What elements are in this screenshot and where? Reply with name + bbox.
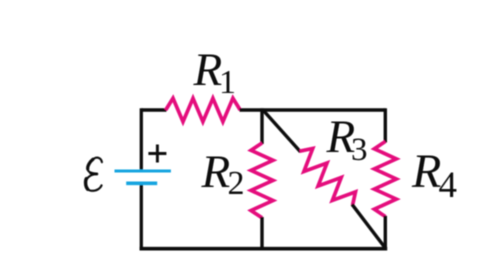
wire: diagonal black lower segment (R3 to bottom-right corner) — [352, 204, 386, 248]
wire: diagonal black upper segment (node to R3) — [263, 110, 301, 152]
svg-text:R: R — [201, 146, 231, 198]
wire: bottom — [140, 247, 388, 251]
svg-text:4: 4 — [439, 165, 458, 206]
svg-text:2: 2 — [228, 165, 245, 202]
wire: top-left stub from corner to R1 — [141, 108, 167, 112]
battery negative plate (short, cyan) — [126, 182, 157, 186]
label R1 — [193, 44, 237, 101]
wire: right side lower (R4 to bottom corner) — [384, 216, 387, 251]
svg-text:1: 1 — [219, 64, 236, 101]
label R4 — [411, 145, 457, 206]
resistor R4 — [374, 142, 396, 217]
wire: left side lower (battery to bottom corner) — [140, 185, 143, 250]
label R3 — [326, 111, 368, 168]
resistor R1 — [166, 98, 241, 121]
label R2 — [201, 146, 245, 202]
resistor R3 — [300, 149, 356, 206]
wire: R2 branch upper stub — [260, 108, 263, 144]
resistor R2 — [251, 143, 273, 218]
svg-text:R: R — [193, 44, 223, 96]
battery + sign — [148, 145, 166, 163]
wire: R2 branch lower stub — [260, 217, 263, 250]
label script-E (emf) — [85, 158, 102, 191]
svg-text:3: 3 — [351, 132, 368, 168]
battery positive plate (long, cyan) — [115, 169, 171, 172]
wire: left side upper (corner to battery) — [140, 108, 143, 169]
wire: top from R1 to top-right corner — [240, 108, 386, 112]
wire: right side upper (corner to R4) — [384, 108, 387, 142]
svg-text:R: R — [411, 145, 441, 198]
